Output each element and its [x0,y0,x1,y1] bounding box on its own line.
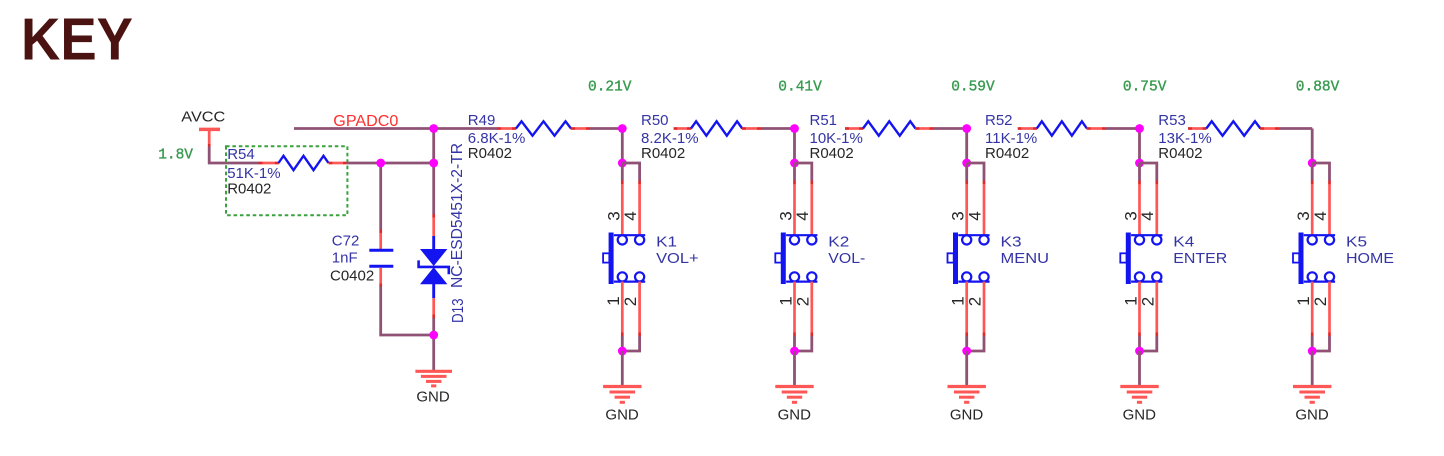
wire pin 2 of K1 to ground [622,282,639,351]
svg-text:GPADC0: GPADC0 [333,113,398,130]
push button K5 [1293,233,1335,285]
junction bus at K2 column [790,124,799,133]
svg-text:GND: GND [605,406,639,423]
wire K3 to ground symbol [965,351,968,386]
wire bus segment after R50 [761,127,795,130]
svg-text:K4: K4 [1173,234,1194,251]
junction D13 tap [429,159,438,168]
svg-text:0.59V: 0.59V [951,80,995,96]
svg-text:R0402: R0402 [468,145,512,162]
svg-text:K3: K3 [1001,234,1022,251]
svg-text:VOL-: VOL- [828,250,865,267]
svg-text:2: 2 [621,297,640,306]
ground (D13) [415,371,452,386]
wire R54 output to C72/D13 [347,162,434,165]
push button K2 [775,233,817,285]
resistor R49 [497,121,590,135]
TVS diode D13 [419,217,449,318]
wire bus drop to K1 [621,129,624,164]
wire bus segment D13 to R49 [434,127,498,130]
svg-text:0.75V: 0.75V [1123,80,1167,96]
svg-text:NC-ESD5451X-2-TR: NC-ESD5451X-2-TR [449,143,466,288]
wire GPADC0 down through D13 column [432,129,435,218]
wire K1 to ground symbol [621,351,624,386]
capacitor C72 [369,233,393,287]
svg-text:HOME: HOME [1346,250,1394,267]
ground (K3) [948,387,986,403]
junction ground node of K2 [790,347,799,356]
wire to pin 4 of K2 [795,163,812,236]
svg-text:R52: R52 [985,112,1013,129]
svg-text:0.41V: 0.41V [778,80,822,96]
wire pin 2 of K5 to ground [1312,282,1329,351]
svg-text:GND: GND [950,406,984,423]
wire pin 2 of K3 to ground [967,282,984,351]
wire K2 to ground symbol [793,351,796,386]
svg-text:51K-1%: 51K-1% [227,165,280,182]
svg-text:2: 2 [1311,297,1330,306]
svg-text:GND: GND [1295,406,1329,423]
junction ground node of K3 [962,347,971,356]
wire bus segment after R49 [590,127,622,130]
svg-text:R0402: R0402 [227,181,271,198]
wire pin 2 of K4 to ground [1140,282,1157,351]
wire K5 to ground symbol [1311,351,1314,386]
junction pin split of K5 [1308,159,1317,168]
svg-text:4: 4 [793,211,812,220]
wire pin 2 of K2 to ground [795,282,812,351]
svg-text:R49: R49 [468,112,496,129]
svg-text:MENU: MENU [1001,250,1050,267]
junction pin split of K4 [1135,159,1144,168]
svg-text:R0402: R0402 [1158,145,1202,162]
wire to pin 4 of K5 [1312,163,1329,236]
wire bus segment after R52 [1106,127,1140,130]
wire pin 1 of K5 to ground [1311,282,1314,351]
svg-text:C72: C72 [332,232,360,249]
wire K4 to ground symbol [1138,351,1141,386]
dashed highlight box around R54 [226,146,347,215]
wire pin 1 of K4 to ground [1138,282,1141,351]
junction pin split of K3 [962,159,971,168]
wire net GPADC0 [294,127,434,130]
junction ground node of K1 [618,347,627,356]
svg-text:R54: R54 [227,146,255,163]
wire bus segment after R51 [934,127,967,130]
wire to pin 3 of K3 [965,163,968,236]
svg-text:0.88V: 0.88V [1296,80,1340,96]
junction bus at K3 column [962,124,971,133]
wire to pin 4 of K3 [967,163,984,236]
svg-text:4: 4 [965,211,984,220]
svg-text:R53: R53 [1158,112,1186,129]
resistor R50 [674,121,761,135]
wire bus drop to K3 [965,129,968,164]
junction ground node of K4 [1135,347,1144,356]
ground (K4) [1120,387,1158,403]
push button K1 [603,233,645,285]
push button K3 [948,233,990,285]
junction C72 tap [376,159,385,168]
resistor R54 [259,156,347,170]
wire C72 bottom to ground rail [381,286,434,335]
svg-text:GND: GND [778,406,812,423]
svg-text:4: 4 [621,211,640,220]
ground (K1) [603,387,641,403]
wire pin 1 of K1 to ground [621,282,624,351]
svg-text:R50: R50 [641,112,669,129]
svg-text:K5: K5 [1346,234,1367,251]
wire to pin 4 of K1 [622,163,639,236]
svg-text:1nF: 1nF [332,249,358,266]
svg-text:R0402: R0402 [641,145,685,162]
svg-text:2: 2 [966,297,985,306]
wire to pin 4 of K4 [1140,163,1157,236]
svg-text:C0402: C0402 [330,268,374,285]
svg-text:2: 2 [793,297,812,306]
resistor R53 [1188,121,1279,135]
ground (K2) [775,387,813,403]
junction bus at K4 column [1135,124,1144,133]
ground (K5) [1293,387,1331,403]
svg-text:0.21V: 0.21V [588,80,632,96]
wire to pin 3 of K1 [621,163,624,236]
svg-text:GND: GND [1123,406,1157,423]
resistor R51 [845,121,934,135]
svg-text:4: 4 [1138,211,1157,220]
wire C72 branch [379,163,382,233]
svg-text:K2: K2 [828,234,849,251]
svg-text:D13: D13 [450,298,467,323]
junction ground node of K5 [1308,347,1317,356]
power symbol AVCC [199,129,220,147]
svg-text:VOL+: VOL+ [656,250,699,267]
wire pin 1 of K3 to ground [965,282,968,351]
wire bus segment after R53 [1279,127,1312,130]
wire D13 bottom to ground [432,318,435,371]
svg-text:KEY: KEY [21,6,133,73]
wire to pin 3 of K2 [793,163,796,236]
push button K4 [1120,233,1162,285]
wire pin 1 of K2 to ground [793,282,796,351]
wire to pin 3 of K4 [1138,163,1141,236]
wire bus drop to K2 [793,129,796,164]
wire bus drop to K5 [1311,129,1314,164]
svg-text:1.8V: 1.8V [158,148,193,164]
junction GPADC0/bus at D13 column [429,124,438,133]
svg-text:GND: GND [416,388,450,405]
junction bus at K1 column [618,124,627,133]
wire bus drop to K4 [1138,129,1141,164]
junction ground rail at D13 [429,331,438,340]
resistor R52 [1018,121,1106,135]
svg-text:R0402: R0402 [810,145,854,162]
wire AVCC to R54 [209,147,259,164]
svg-text:R51: R51 [810,112,838,129]
svg-text:4: 4 [1311,211,1330,220]
svg-text:2: 2 [1138,297,1157,306]
junction pin split of K1 [618,159,627,168]
wire to pin 3 of K5 [1311,163,1314,236]
svg-text:ENTER: ENTER [1173,250,1227,267]
svg-text:R0402: R0402 [985,145,1029,162]
junction pin split of K2 [790,159,799,168]
svg-text:K1: K1 [656,234,677,251]
svg-text:AVCC: AVCC [181,109,225,126]
